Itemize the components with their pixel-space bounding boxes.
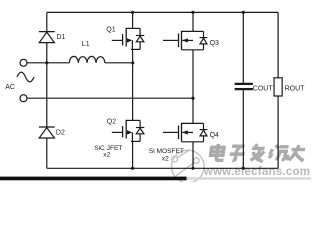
wire inductor to Q1-Q2 midpoint (105, 62, 133, 64)
bottom black bar (0, 177, 187, 181)
node bottom rail / COUT (242, 167, 245, 170)
bottom grey bar (187, 177, 312, 180)
capacitor COUT (235, 12, 253, 168)
wire top rail (47, 11, 278, 13)
transistor Q1 (SiC JFET top of fast leg) (112, 12, 145, 62)
node Q3-Q4 midpoint (191, 97, 194, 100)
svg-text:L1: L1 (82, 41, 90, 48)
transistor Q3 (Si MOSFET top of slow leg) (163, 12, 207, 98)
svg-text:COUT: COUT (253, 86, 274, 93)
node top rail / COUT (242, 11, 245, 14)
node AC-D junction (45, 61, 48, 64)
transistor Q2 (SiC JFET bottom of fast leg) (112, 63, 145, 169)
wire bottom rail (47, 167, 278, 169)
AC source terminal lower (20, 95, 27, 102)
diode D2 (39, 127, 55, 138)
node bottom rail / Q4 source (191, 167, 194, 170)
AC sine symbol (17, 72, 34, 82)
svg-text:x2: x2 (103, 152, 110, 159)
svg-text:x2: x2 (162, 156, 169, 163)
svg-text:D2: D2 (56, 130, 65, 137)
node Q1-Q2 midpoint (131, 61, 134, 64)
node top rail / Q1 drain (131, 11, 134, 14)
inductor L1 (69, 56, 105, 62)
resistor ROUT (274, 12, 282, 168)
svg-text:Q2: Q2 (107, 118, 116, 125)
transistor Q4 (Si MOSFET bottom of slow leg) (163, 98, 207, 168)
wire D1-D2 branch vertical (46, 12, 48, 168)
wire AC upper lead (27, 62, 69, 64)
watermark logo circle (172, 150, 205, 183)
svg-text:D1: D1 (56, 34, 65, 41)
node bottom rail / Q2 source (131, 167, 134, 170)
svg-text:ROUT: ROUT (285, 86, 306, 93)
svg-text:AC: AC (5, 84, 15, 91)
diode D1 (39, 32, 55, 43)
node top rail / Q3 drain (191, 11, 194, 14)
svg-text:Q1: Q1 (106, 26, 115, 33)
svg-text:Si MOSFET: Si MOSFET (149, 148, 184, 155)
watermark chinese characters (vector strokes) (209, 144, 307, 163)
svg-text:Q3: Q3 (210, 40, 219, 47)
svg-text:Q4: Q4 (210, 132, 219, 139)
wire AC lower lead to Q3-Q4 midpoint (27, 97, 193, 99)
AC source terminal upper (20, 59, 27, 66)
